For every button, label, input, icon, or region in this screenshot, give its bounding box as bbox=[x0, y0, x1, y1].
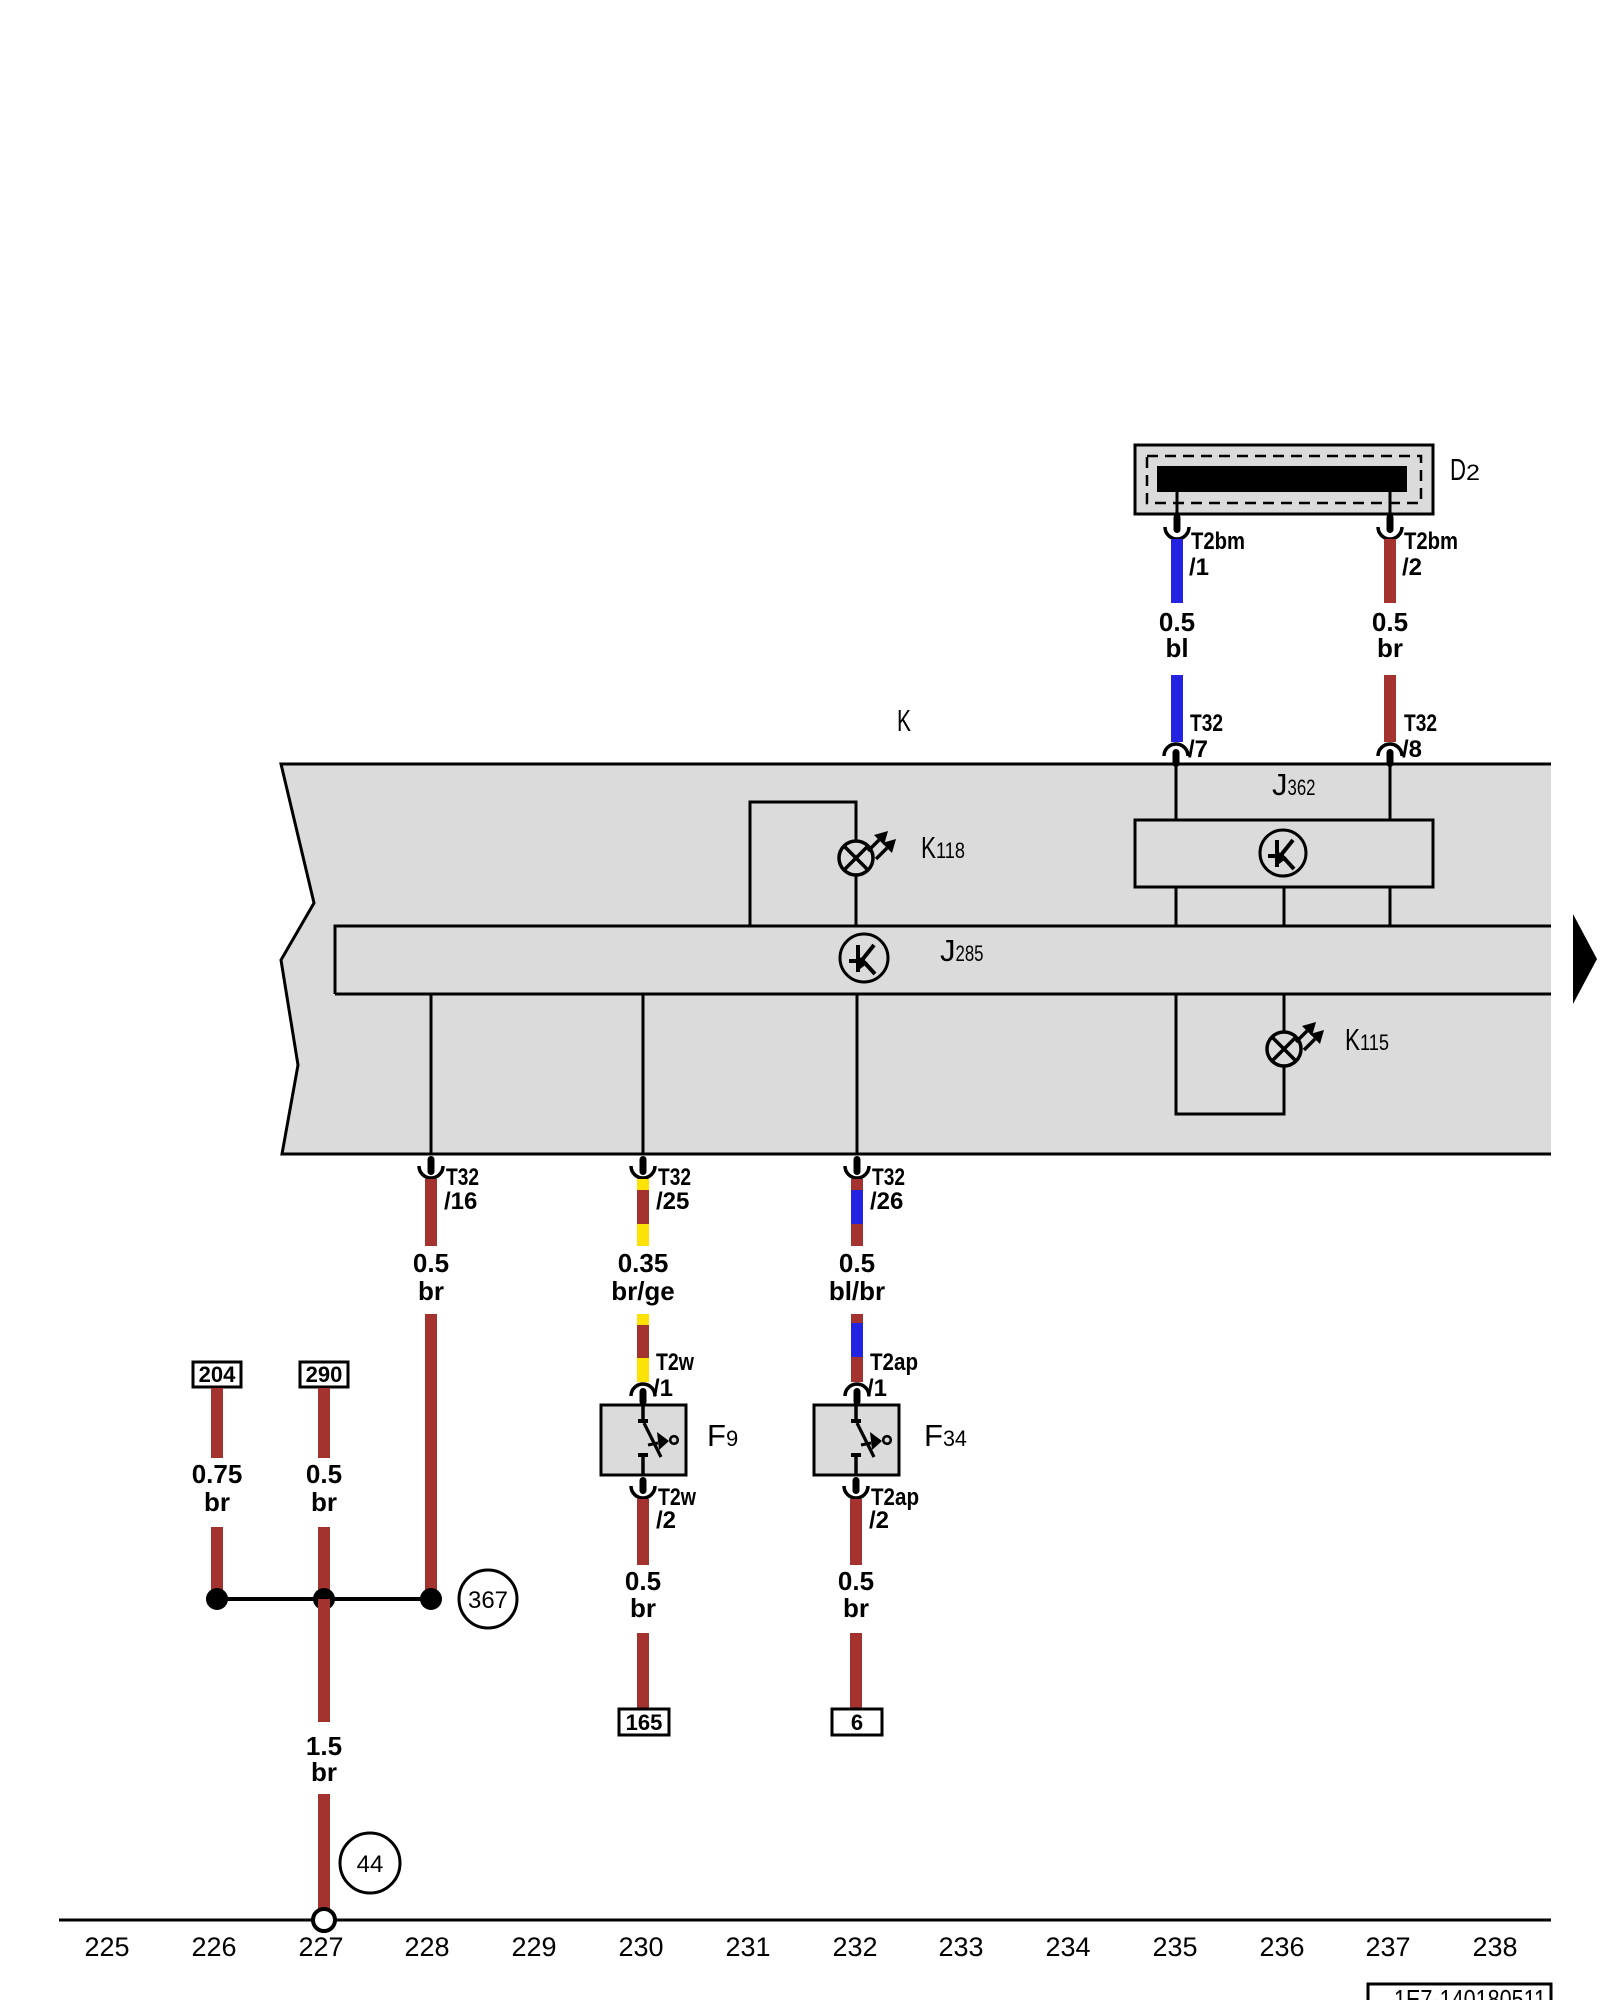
svg-text:T32: T32 bbox=[446, 1164, 479, 1191]
right continuation arrow bbox=[1573, 914, 1597, 1004]
label J362 bbox=[1272, 767, 1316, 802]
wire T32/7 to J362 inside K bbox=[1175, 766, 1178, 820]
wires J362 to J285 bbox=[1176, 887, 1390, 926]
label F34 bbox=[924, 1418, 967, 1453]
wire 0.75 br (from 204 upper) bbox=[211, 1388, 223, 1458]
svg-text:236: 236 bbox=[1259, 1932, 1304, 1962]
wire T32/8 to J362 inside K bbox=[1389, 766, 1392, 820]
svg-text:165: 165 bbox=[626, 1710, 663, 1735]
label K bbox=[897, 703, 911, 738]
ground connection 290 bbox=[300, 1362, 348, 1387]
svg-text:232: 232 bbox=[832, 1932, 877, 1962]
svg-text:0.75: 0.75 bbox=[192, 1459, 243, 1489]
svg-text:T2bm: T2bm bbox=[1191, 528, 1245, 555]
svg-text:233: 233 bbox=[938, 1932, 983, 1962]
wire 0.75 br (from 204 to junction) bbox=[211, 1527, 223, 1599]
svg-text:235: 235 bbox=[1152, 1932, 1197, 1962]
wire 0.5 bl/br (T32/26 upper segment) bbox=[851, 1179, 863, 1246]
svg-text:/1: /1 bbox=[653, 1375, 673, 1402]
control unit J285 (instrument insert) bbox=[335, 926, 1551, 994]
connector T32/16 bbox=[419, 1156, 479, 1215]
label J285 bbox=[940, 933, 984, 968]
junction dot C bbox=[420, 1588, 442, 1610]
junction dot A bbox=[206, 1588, 228, 1610]
connector T2bm/2 bbox=[1378, 492, 1458, 581]
svg-text:/1: /1 bbox=[867, 1375, 887, 1402]
svg-text:br/ge: br/ge bbox=[611, 1276, 675, 1306]
connector T32/7 bbox=[1164, 710, 1223, 767]
connector T2ap/1 bbox=[845, 1349, 918, 1405]
svg-text:290: 290 bbox=[306, 1362, 343, 1387]
ground connection 6 bbox=[832, 1709, 882, 1735]
svg-text:0.5: 0.5 bbox=[838, 1566, 874, 1596]
svg-text:T32: T32 bbox=[658, 1164, 691, 1191]
label 0.5 br (track 227) bbox=[306, 1459, 342, 1517]
wire 0.35 br/ge (T32/25 lower segment) bbox=[637, 1314, 649, 1382]
wire 0.5 br (T32/16 long segment to junction) bbox=[425, 1314, 437, 1599]
diagram id box 1E7-140180511 bbox=[1368, 1984, 1551, 2000]
svg-text:226: 226 bbox=[191, 1932, 236, 1962]
junction dot B bbox=[313, 1588, 335, 1610]
svg-text:228: 228 bbox=[404, 1932, 449, 1962]
label K115 bbox=[1345, 1022, 1389, 1057]
wire 0.5 bl (D2/1 upper segment) bbox=[1171, 539, 1183, 603]
svg-text:br: br bbox=[418, 1276, 444, 1306]
connector T2w/2 bbox=[631, 1477, 696, 1534]
svg-text:bl: bl bbox=[1165, 633, 1188, 663]
svg-text:br: br bbox=[311, 1487, 337, 1517]
wire 0.5 br (T32/16 upper segment) bbox=[425, 1179, 437, 1246]
svg-text:229: 229 bbox=[511, 1932, 556, 1962]
label 0.5 bl/br bbox=[829, 1248, 885, 1306]
svg-text:T2w: T2w bbox=[656, 1349, 694, 1376]
lamp K118 bbox=[839, 831, 896, 875]
wire 0.5 br (from 290 to junction) bbox=[318, 1527, 330, 1599]
ground connection 165 bbox=[619, 1709, 669, 1735]
svg-text:br: br bbox=[1377, 633, 1403, 663]
label 0.5 br (track 228) bbox=[413, 1248, 449, 1306]
svg-text:367: 367 bbox=[468, 1587, 508, 1614]
svg-text:/26: /26 bbox=[870, 1188, 903, 1215]
svg-text:T32: T32 bbox=[872, 1164, 905, 1191]
svg-text:234: 234 bbox=[1045, 1932, 1090, 1962]
wire 0.5 br (from 290 upper) bbox=[318, 1388, 330, 1458]
wire 0.5 br (D2/2 lower segment) bbox=[1384, 675, 1396, 742]
wire 0.5 br (D2/2 upper segment) bbox=[1384, 539, 1396, 603]
svg-text:T32: T32 bbox=[1190, 710, 1223, 737]
switch F9 (handbrake warning switch) bbox=[601, 1405, 686, 1475]
connector T2bm/1 bbox=[1165, 492, 1245, 581]
label D2 bbox=[1450, 452, 1480, 487]
label 0.5 bl bbox=[1159, 607, 1195, 663]
svg-text:44: 44 bbox=[357, 1851, 384, 1878]
wire 0.5 br (to ground 6) bbox=[850, 1633, 862, 1709]
svg-text:br: br bbox=[204, 1487, 230, 1517]
svg-text:br: br bbox=[311, 1757, 337, 1787]
wires J285 to bottom edge of K bbox=[431, 994, 857, 1154]
wire 1.5 br (junction down, upper) bbox=[318, 1599, 330, 1722]
wire 0.35 br/ge (T32/25 upper segment) bbox=[637, 1179, 649, 1246]
svg-text:237: 237 bbox=[1365, 1932, 1410, 1962]
svg-text:230: 230 bbox=[618, 1932, 663, 1962]
junction wire link bbox=[217, 1597, 431, 1601]
wiring junction marker 367 bbox=[459, 1570, 517, 1628]
connector T32/26 bbox=[845, 1156, 905, 1215]
label F9 bbox=[707, 1418, 738, 1453]
svg-text:/7: /7 bbox=[1188, 736, 1208, 763]
svg-text:br: br bbox=[630, 1593, 656, 1623]
label K118 bbox=[921, 830, 965, 865]
track numbers 225-238 bbox=[84, 1932, 1517, 1962]
wire loop from J285 down to lamp K115 bbox=[1176, 994, 1284, 1114]
wire 0.5 br (below F34 upper) bbox=[850, 1499, 862, 1565]
svg-text:6: 6 bbox=[851, 1710, 863, 1735]
svg-text:0.5: 0.5 bbox=[625, 1566, 661, 1596]
svg-text:/16: /16 bbox=[444, 1188, 477, 1215]
wire 0.5 br (below F9 upper) bbox=[637, 1499, 649, 1565]
svg-text:0.5: 0.5 bbox=[306, 1459, 342, 1489]
svg-text:0.5: 0.5 bbox=[839, 1248, 875, 1278]
svg-text:T2bm: T2bm bbox=[1404, 528, 1458, 555]
svg-text:/25: /25 bbox=[656, 1188, 689, 1215]
label 0.75 br bbox=[192, 1459, 243, 1517]
connector T32/25 bbox=[631, 1156, 691, 1215]
svg-text:/2: /2 bbox=[656, 1507, 676, 1534]
wire 1.5 br (to ground point 44) bbox=[318, 1794, 330, 1911]
control unit K (instrument cluster body) bbox=[281, 764, 1551, 1154]
LED symbol in J362 bbox=[1260, 830, 1306, 876]
connector T2w/1 bbox=[631, 1349, 694, 1405]
svg-text:227: 227 bbox=[298, 1932, 343, 1962]
ground point marker 44 bbox=[340, 1833, 400, 1893]
svg-text:/8: /8 bbox=[1402, 736, 1422, 763]
svg-text:br: br bbox=[843, 1593, 869, 1623]
svg-text:225: 225 bbox=[84, 1932, 129, 1962]
switch F34 (brake fluid level warning contact) bbox=[814, 1405, 899, 1475]
svg-text:238: 238 bbox=[1472, 1932, 1517, 1962]
svg-text:/1: /1 bbox=[1189, 554, 1209, 581]
svg-text:K: K bbox=[897, 703, 911, 738]
label 0.5 br bbox=[1372, 607, 1408, 663]
svg-text:/2: /2 bbox=[869, 1507, 889, 1534]
wire 0.5 br (to ground 165) bbox=[637, 1633, 649, 1709]
svg-text:204: 204 bbox=[199, 1362, 236, 1387]
svg-text:bl/br: bl/br bbox=[829, 1276, 885, 1306]
svg-text:/2: /2 bbox=[1402, 554, 1422, 581]
lamp K115 bbox=[1267, 1022, 1324, 1066]
connector T32/8 bbox=[1378, 710, 1437, 767]
control unit J362 (immobilizer) bbox=[1135, 820, 1433, 887]
svg-text:1E7-140180511: 1E7-140180511 bbox=[1394, 1984, 1546, 2000]
wire 0.5 bl/br (T32/26 lower segment) bbox=[851, 1314, 863, 1382]
svg-text:231: 231 bbox=[725, 1932, 770, 1962]
svg-text:0.5: 0.5 bbox=[413, 1248, 449, 1278]
ground connection 204 bbox=[193, 1362, 241, 1387]
label 0.5 br (track 230) bbox=[625, 1566, 661, 1623]
connector T2ap/2 bbox=[844, 1477, 919, 1534]
LED symbol in J285 bbox=[840, 934, 888, 982]
ground rail bbox=[59, 1919, 1551, 1922]
wire 0.5 bl (D2/1 lower segment) bbox=[1171, 675, 1183, 742]
label 0.35 br/ge bbox=[611, 1248, 675, 1306]
wire from J285 up-over to lamp K118 bbox=[750, 802, 856, 926]
svg-text:0.35: 0.35 bbox=[618, 1248, 669, 1278]
svg-text:T2ap: T2ap bbox=[870, 1349, 918, 1376]
svg-text:T32: T32 bbox=[1404, 710, 1437, 737]
label 1.5 br bbox=[306, 1731, 342, 1787]
ground node on rail (open circle) bbox=[313, 1909, 335, 1931]
component D2 (aerial/reading coil) bbox=[1135, 445, 1433, 514]
label 0.5 br (track 232) bbox=[838, 1566, 874, 1623]
